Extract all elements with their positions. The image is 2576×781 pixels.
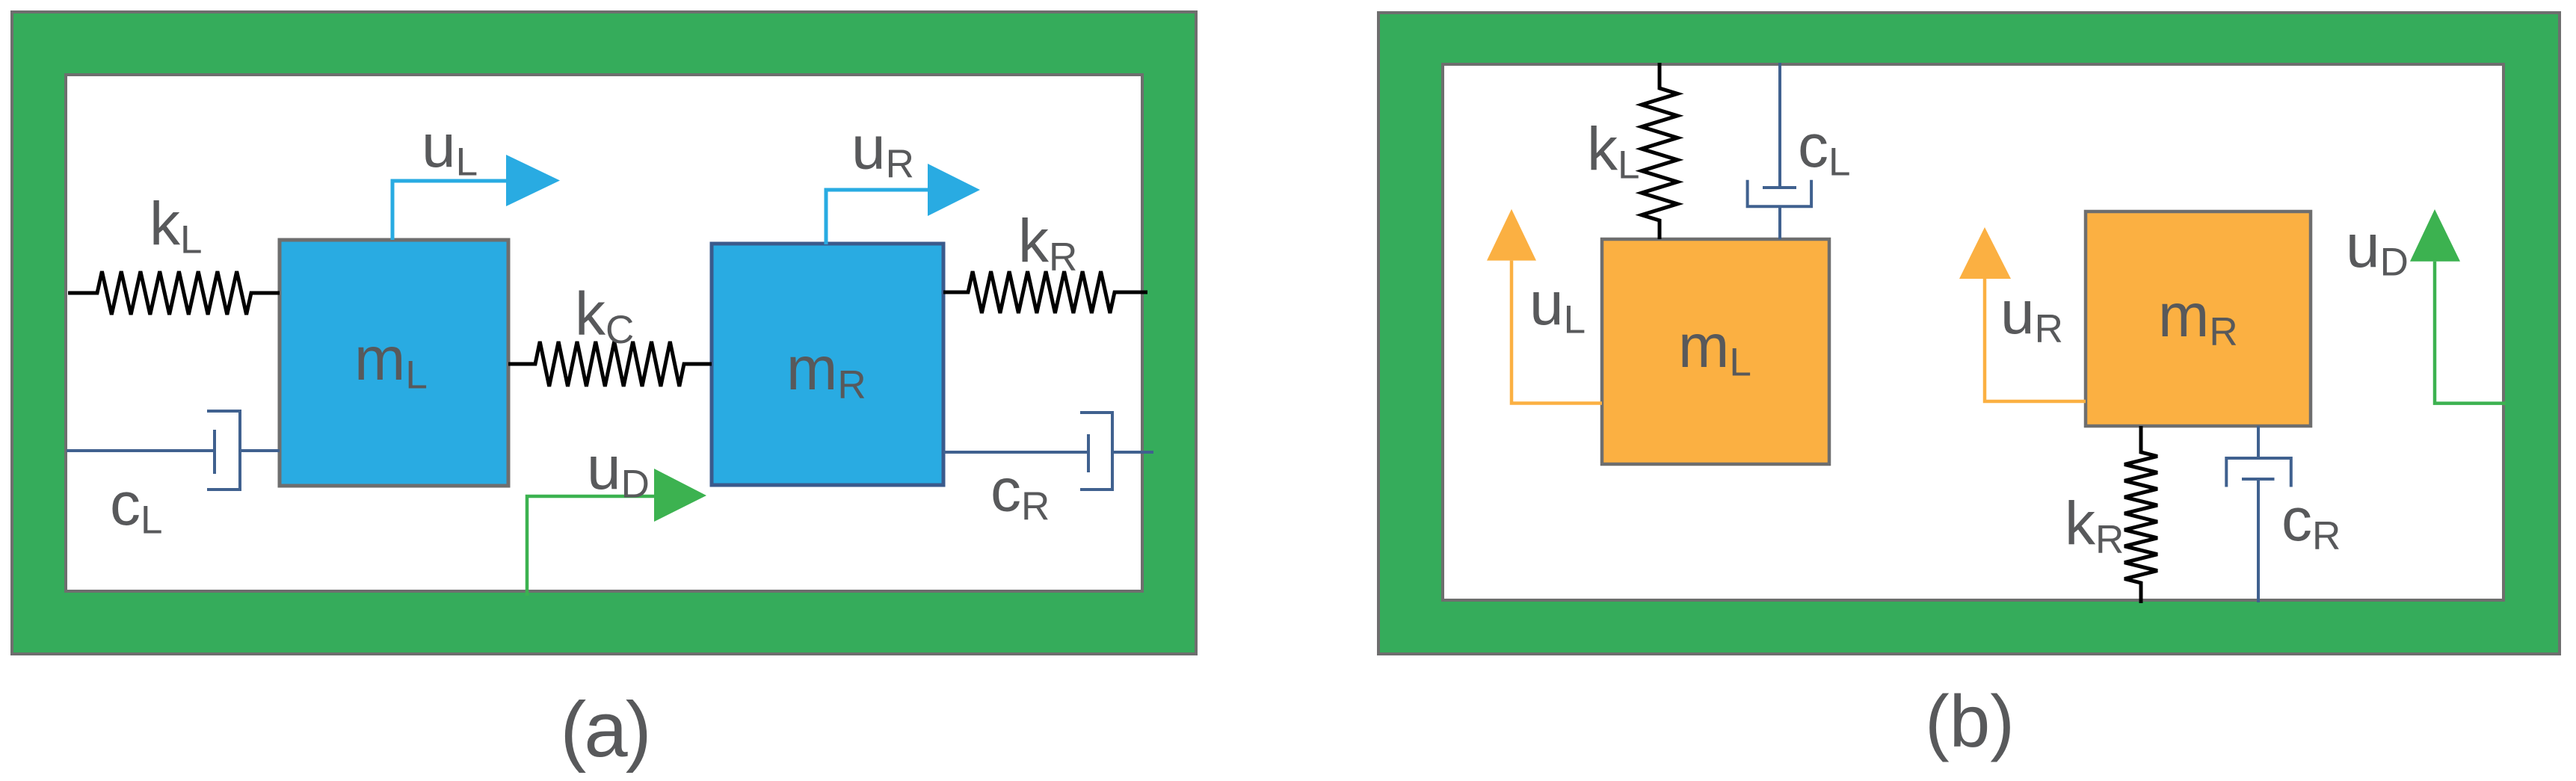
mass m_L (panel b)	[1602, 239, 1829, 464]
arrow u_D (panel a)	[527, 496, 654, 596]
damper c_L (panel a)	[67, 411, 280, 490]
frame A (fixed ground surround, panel a)	[12, 12, 1196, 654]
mass m_L (panel a)	[280, 240, 508, 486]
damper c_R (panel b)	[2226, 426, 2291, 602]
svg-text:(b): (b)	[1925, 680, 2015, 762]
frame A inner cavity	[66, 75, 1142, 591]
damper c_R (panel a)	[943, 413, 1153, 490]
arrow u_D (panel b)	[2435, 262, 2506, 404]
spring k_R (panel a)	[943, 271, 1147, 313]
spring k_L (panel b)	[1642, 63, 1677, 239]
frame B inner cavity	[1443, 64, 2503, 600]
svg-text:(a): (a)	[560, 686, 649, 774]
damper c_L (panel b)	[1748, 63, 1812, 239]
mass m_R (panel a)	[712, 244, 943, 485]
arrow u_L (panel b)	[1512, 261, 1602, 404]
arrow u_R (panel b)	[1985, 279, 2086, 401]
frame B (fixed ground surround, panel b)	[1378, 13, 2560, 654]
arrow u_R (panel a)	[826, 190, 928, 244]
arrow u_L (panel a)	[392, 181, 506, 240]
spring k_R (panel b)	[2124, 426, 2157, 603]
mass m_R (panel b)	[2086, 212, 2311, 426]
spring k_L (panel a)	[68, 271, 280, 315]
spring k_C (panel a)	[508, 342, 712, 386]
